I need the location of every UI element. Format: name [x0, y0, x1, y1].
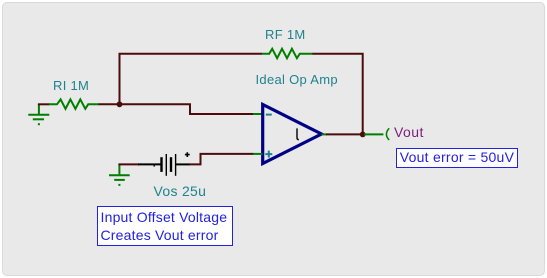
- wire GND2 to Vos: [118, 163, 139, 165]
- wire RF to output node (right rail and drop): [313, 54, 363, 135]
- wire node A riser to feedback rail: [119, 54, 121, 105]
- wire feedback rail left segment: [119, 53, 263, 55]
- op-amp plus sign: [265, 151, 272, 158]
- wire GND1 to RI: [38, 103, 50, 105]
- resistor RF (1M): [262, 49, 313, 58]
- wire RI to node A: [99, 103, 120, 105]
- wire green stub at inverting input: [253, 113, 263, 115]
- battery minus nub: [153, 165, 155, 167]
- op-amp minus sign: [266, 114, 272, 116]
- op-amp U1 triangle: [263, 105, 322, 164]
- label Vos 25u: [154, 183, 207, 199]
- annotation box: Vout error = 50uV: [396, 148, 518, 168]
- label Ideal Op Amp: [256, 72, 338, 87]
- node A junction dot: [117, 101, 123, 107]
- resistor RI (1M): [49, 99, 99, 108]
- label Vout: [394, 124, 424, 140]
- annotation box: Input Offset Voltage / Creates Vout error: [97, 206, 233, 246]
- wire node OUT to Vout terminal: [364, 133, 383, 135]
- Vout open terminal arc: [386, 128, 389, 140]
- wire green stub at non-inverting input: [253, 153, 263, 155]
- label RI 1M: [53, 78, 89, 93]
- ground GND2 (below Vos): [109, 164, 130, 185]
- wire node A to op-amp inverting input (with jog): [120, 104, 255, 114]
- wire Vos to op-amp non-inverting input: [189, 154, 254, 165]
- battery plus marker: [185, 152, 190, 157]
- voltage source Vos 25u (battery): [138, 152, 190, 176]
- wire op-amp output: [322, 133, 328, 135]
- op-amp gain glyph l: [297, 128, 299, 139]
- ground GND1 (left of RI): [28, 104, 49, 124]
- node OUT junction dot: [360, 132, 366, 138]
- label RF 1M: [265, 27, 306, 42]
